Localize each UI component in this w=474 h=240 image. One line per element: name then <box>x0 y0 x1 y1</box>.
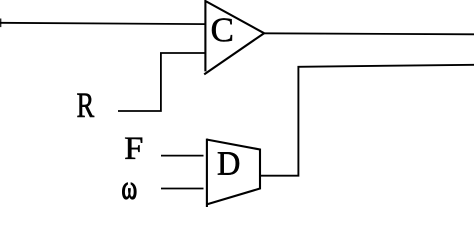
label C <box>212 18 232 41</box>
block C (triangle) <box>205 1 264 71</box>
wire: output of C to right edge <box>264 33 474 34</box>
wire: R to block C <box>118 53 206 111</box>
wire: F input to D <box>161 155 204 157</box>
label D <box>218 152 239 174</box>
label omega <box>122 183 136 199</box>
wire: omega input to D <box>161 188 204 190</box>
block D (trapezoid) <box>206 139 208 207</box>
label R <box>77 94 94 117</box>
wire: D output riser to right edge <box>261 65 474 176</box>
input terminal tick <box>0 19 2 28</box>
wire: input line to block C <box>0 23 206 24</box>
label F <box>125 138 142 159</box>
